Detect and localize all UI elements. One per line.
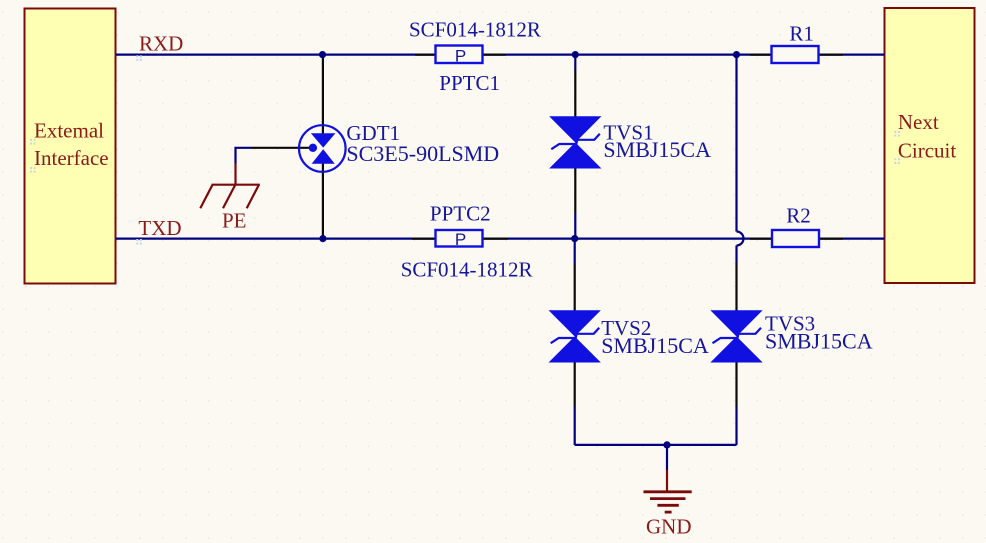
svg-text:Interface: Interface [34,146,109,170]
wire: vertical from RXD to TVS1 [574,55,576,70]
svg-text:Next: Next [898,110,939,134]
TVS3 [713,311,762,361]
svg-text:SCF014-1812R: SCF014-1812R [401,258,533,282]
TVS1 [551,117,600,167]
pin R1 left (black) [750,53,772,55]
pin TVS2 top (black) [574,264,576,312]
svg-text:R1: R1 [789,21,814,45]
svg-text:PPTC1: PPTC1 [439,71,500,95]
wire RXD horizontal [116,53,885,55]
svg-text:Extemal: Extemal [34,119,104,143]
wire: vertical TVS3 bottom to GND rail [735,407,737,445]
gas discharge tube GDT1 [299,125,346,172]
pin R2 left (black) [750,238,772,240]
pin PPTC1 left (black) [415,53,436,55]
wire: vertical from RXD junction down to hop [735,55,737,232]
resistor R2 [772,230,819,247]
junction GND rail [663,441,670,448]
wire hop over TXD [737,232,744,246]
pin TVS3 bottom (black) [735,361,737,407]
junction RXD/R-branch [733,51,740,58]
power port PE [200,163,259,208]
svg-text:GND: GND [646,515,692,539]
pin PPTC1 right (black) [482,53,506,55]
svg-text:SMBJ15CA: SMBJ15CA [601,333,709,358]
svg-text:P: P [455,46,466,65]
resistor R1 [772,46,819,63]
pin R2 right (black) [818,238,843,240]
junction RXD/GDT [319,51,326,58]
wire TXD horizontal [116,238,885,240]
junction TXD/TVS [571,235,578,242]
svg-text:PPTC2: PPTC2 [430,201,491,225]
wire: vertical TVS2 bottom to GND rail [574,407,576,445]
svg-text:RXD: RXD [139,32,183,56]
wire: vertical hop to TVS3 [735,246,737,264]
svg-text:P: P [455,230,466,249]
wire to PE [236,148,252,164]
junction RXD/TVS1 [572,51,579,58]
svg-text:SMBJ15CA: SMBJ15CA [765,328,873,353]
junction TXD/GDT [319,235,326,242]
sheet symbol: External Interface box [25,9,116,284]
svg-text:PE: PE [222,209,247,233]
fuse PPTC1 [436,46,483,66]
svg-text:R2: R2 [786,203,811,227]
svg-text:TXD: TXD [138,216,181,240]
pin PPTC2 right (black) [482,238,508,240]
pin TVS1 bottom (black) [574,168,576,213]
GDT1 pins (black) [322,56,324,134]
pin TVS1 top (black) [574,70,576,118]
power port GND [644,445,692,512]
TVS2 [551,311,600,361]
sheet symbol: Next Circuit box [885,8,975,283]
svg-text:SMBJ15CA: SMBJ15CA [603,137,711,162]
wire: vertical TVS1 bottom to TXD [574,213,576,239]
svg-text:SC3E5-90LSMD: SC3E5-90LSMD [346,141,499,166]
pin TVS3 top (black) [735,263,737,312]
pin TVS2 bottom (black) [574,361,576,407]
text anchor marks [30,55,900,244]
svg-text:Circuit: Circuit [898,138,956,162]
wire: vertical TXD to TVS2 [574,239,576,264]
pin R1 right (black) [818,53,843,55]
pin PPTC2 left (black) [412,238,436,240]
fuse PPTC2 [436,230,483,249]
svg-text:SCF014-1812R: SCF014-1812R [409,17,541,41]
wire: GND rail horizontal [575,444,737,446]
